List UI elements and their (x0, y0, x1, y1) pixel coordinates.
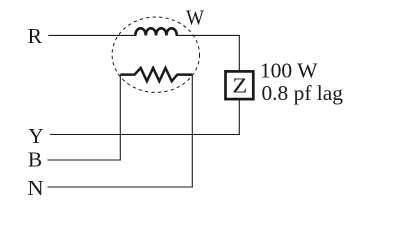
wire from Z box down to Y line (238, 100, 240, 135)
wire R line right segment (176, 34, 240, 36)
wattmeter dashed ellipse (112, 17, 199, 92)
resistor pressure coil (left lead, zigzag, right lead) (120, 68, 192, 81)
wire B line (48, 159, 121, 161)
svg-text:N: N (27, 176, 44, 200)
impedance box Z (226, 71, 254, 99)
svg-text:W: W (186, 6, 205, 30)
wire Y line (50, 134, 240, 136)
wire from R line down to Z box (238, 35, 240, 71)
wire resistor right to N line (191, 75, 193, 188)
svg-text:Y: Y (28, 124, 43, 148)
wire N line (48, 186, 193, 188)
svg-text:0.8 pf lag: 0.8 pf lag (261, 81, 343, 105)
inductor current coil (135, 28, 176, 35)
wire resistor left to B line (119, 75, 121, 161)
svg-text:Z: Z (232, 73, 247, 97)
svg-text:R: R (27, 24, 42, 48)
svg-text:100 W: 100 W (260, 59, 318, 83)
svg-text:B: B (28, 148, 42, 172)
wire R line (48, 34, 136, 36)
